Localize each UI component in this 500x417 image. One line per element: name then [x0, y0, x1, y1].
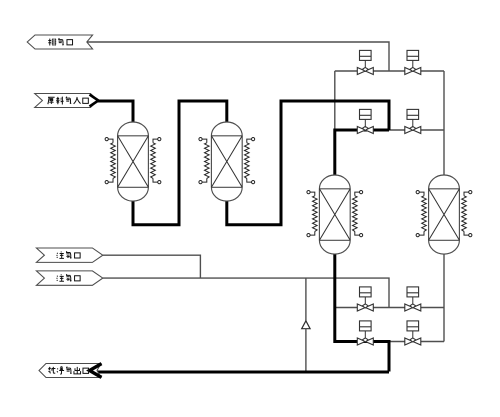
wire row2 thin segment [389, 129, 444, 131]
valve row1 right [405, 50, 421, 74]
node nitrogen banner 1 注氮口 [36, 248, 102, 262]
wire nitrogen line 2 [103, 278, 389, 307]
coil V3 right [353, 191, 363, 237]
pipe product outlet (thick) [97, 371, 390, 374]
pipe vessel V2 bottom to valve row2 (thick) [227, 101, 389, 225]
valve row4 left [357, 321, 373, 345]
node nitrogen banner 2 注氮口 [36, 271, 102, 285]
wire valve row 1 header [335, 70, 444, 72]
flow arrow on purge line [302, 321, 310, 329]
wire left column row1-row2 [334, 71, 336, 130]
coil V1 left [105, 138, 115, 184]
valve row1 left [357, 50, 373, 74]
node exhaust banner 排气口 [27, 35, 92, 49]
coil V3 left [307, 191, 317, 237]
wire nitrogen line 1 [103, 255, 201, 278]
wire right column row1 to vessel V4 top [443, 71, 445, 176]
valve row4 right [405, 321, 421, 345]
vessel V4 [429, 175, 460, 254]
coil V2 right [245, 138, 255, 184]
node product banner 纯净气出口 [39, 364, 102, 378]
valve row3 left [357, 287, 373, 311]
vessel V2 [211, 122, 242, 201]
wire row4 thin segment [389, 341, 444, 343]
wire right column vessel V4 bottom to row4 [443, 254, 445, 342]
coil V4 right [462, 191, 472, 237]
coil V1 right [151, 138, 161, 184]
wire purge line lower [305, 329, 307, 372]
vessel V3 [319, 175, 350, 254]
wire exhaust header [87, 42, 389, 71]
node feed banner 原料气入口 [35, 94, 99, 108]
pipe feed inlet to vessel V1 (thick) [97, 101, 133, 123]
valve row2 right [405, 109, 421, 133]
pipe vessel V3 bottom to row4 (thick) [335, 254, 389, 372]
coil V4 left [416, 191, 426, 237]
coil V2 left [199, 138, 209, 184]
pipe row2 to vessel V3 top (thick) [335, 130, 389, 176]
pipe vessel V1 bottom to vessel V2 top (thick) [133, 101, 227, 225]
valve row3 right [405, 287, 421, 311]
valve row2 left [357, 109, 373, 133]
wire purge line upper [305, 278, 307, 321]
vessel V1 [118, 122, 149, 201]
wire row3 header [335, 307, 444, 309]
